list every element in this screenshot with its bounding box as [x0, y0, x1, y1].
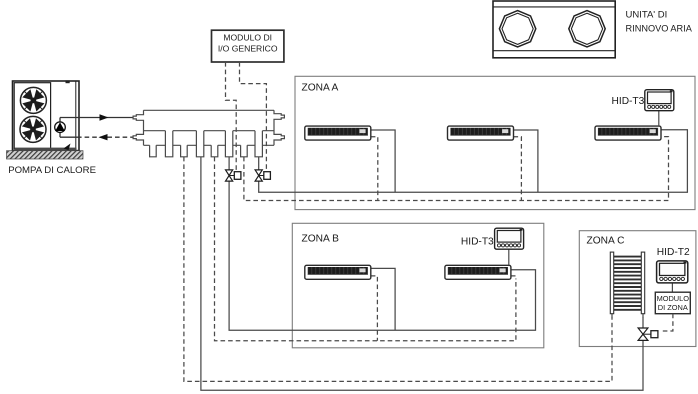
fan coil unit A3 [595, 126, 661, 140]
fan coil A2 return branch (dashed) [514, 137, 522, 201]
MODULO DI I/O GENERICO box [212, 30, 284, 62]
control line from I/O module to valve V1 (dashed) [226, 62, 237, 171]
svg-text:ZONA A: ZONA A [302, 83, 339, 94]
control line from I/O module to valve V2 (dashed) [240, 62, 267, 171]
svg-text:POMPA DI CALORE: POMPA DI CALORE [8, 165, 96, 176]
return pipe zone C (dashed riser to radiator left) [184, 157, 612, 382]
supply pipe heat pump to manifold (solid, arrow right) [60, 114, 133, 120]
svg-text:MODULO DI: MODULO DI [223, 32, 272, 42]
return pipe zone A (dashed bus) [244, 137, 669, 201]
svg-text:I/O GENERICO: I/O GENERICO [218, 44, 278, 54]
fan coil unit A2 [448, 126, 514, 140]
svg-text:MODULO: MODULO [657, 294, 690, 303]
control line from MODULO DI ZONA to valve V3 (dashed) [660, 314, 673, 331]
thermostat HID-T3 zone B [495, 228, 524, 249]
fan 1 of heat pump [20, 87, 46, 113]
radiator zone C [610, 252, 644, 317]
zone box ZONA A [295, 76, 695, 209]
svg-text:UNITA' DI: UNITA' DI [626, 10, 668, 21]
thermostat HID-T2 zone C wire [671, 283, 673, 293]
zone valve V1 with actuator [226, 170, 241, 181]
svg-text:HID-T3: HID-T3 [612, 96, 645, 107]
zone valve V2 with actuator [255, 170, 270, 181]
air renewal unit (UNITA DI RINNOVO ARIA) [493, 1, 615, 58]
fan 2 of air renewal unit [569, 11, 605, 47]
fan coil unit A1 [305, 126, 371, 140]
return pipe manifold to heat pump (dashed, arrow left) [60, 134, 133, 140]
fan coil B1 return branch (dashed) [371, 276, 378, 341]
circulation pump inside heat pump [55, 118, 66, 138]
MODULO DI ZONA box [655, 292, 690, 314]
thermostat HID-T2 zone C [657, 261, 688, 283]
return pipe zone B (dashed bus) [215, 157, 516, 341]
svg-text:RINNOVO ARIA: RINNOVO ARIA [626, 24, 693, 34]
zone box ZONA B [292, 223, 544, 347]
heat pump base plinth [7, 148, 84, 159]
supply pipe zone B through valve V1 (solid bus) [229, 157, 535, 330]
supply pipe zone C (solid riser to radiator valve) [201, 157, 643, 390]
svg-text:ZONA B: ZONA B [302, 233, 340, 244]
zone box ZONA C [579, 231, 696, 347]
svg-text:ZONA C: ZONA C [587, 236, 625, 247]
heat pump (POMPA DI CALORE) [13, 80, 80, 150]
svg-text:HID-T3: HID-T3 [461, 236, 494, 247]
supply pipe zone A through valve V2 (solid bus) [259, 130, 688, 193]
fan coil B1 supply branch [371, 268, 395, 330]
fan coil unit B2 [445, 265, 511, 279]
fan 2 of heat pump [20, 116, 46, 142]
svg-text:DI ZONA: DI ZONA [658, 303, 688, 312]
fan coil A1 return branch (dashed) [371, 137, 378, 201]
svg-text:HID-T2: HID-T2 [657, 247, 690, 258]
fan coil B2 return branch (dashed) [511, 276, 516, 280]
fan coil A1 supply branch [371, 130, 395, 192]
thermostat HID-T3 zone B wire [508, 249, 510, 265]
manifold (supply and return headers with outlets) [133, 110, 284, 157]
small return arrowhead at heat pump corner [64, 144, 71, 151]
fan coil unit B1 [305, 265, 371, 279]
thermostat HID-T3 zone A wire [658, 110, 660, 126]
zone valve V3 (radiator) with actuator [638, 328, 658, 340]
thermostat HID-T3 zone A [645, 90, 674, 111]
fan 1 of air renewal unit [499, 11, 535, 47]
fan coil A2 supply branch [514, 130, 538, 192]
